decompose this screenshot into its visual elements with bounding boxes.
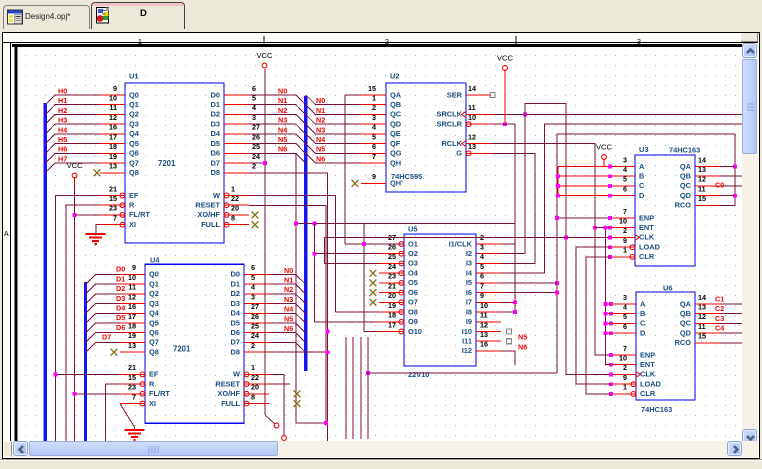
svg-text:16: 16: [128, 302, 136, 311]
svg-text:N4: N4: [284, 305, 293, 314]
svg-text:7: 7: [480, 281, 484, 290]
svg-text:QC: QC: [680, 181, 692, 190]
svg-text:7: 7: [623, 344, 627, 353]
svg-text:D1: D1: [116, 274, 125, 283]
svg-text:D7: D7: [211, 158, 220, 167]
svg-text:N5: N5: [284, 314, 293, 323]
svg-text:N4: N4: [316, 135, 325, 144]
svg-text:7: 7: [132, 392, 136, 401]
svg-text:ENT: ENT: [640, 360, 655, 369]
svg-text:1: 1: [623, 246, 627, 255]
svg-text:13: 13: [468, 142, 476, 151]
svg-text:15: 15: [698, 194, 706, 203]
svg-text:21: 21: [388, 281, 396, 290]
svg-text:15: 15: [698, 332, 706, 341]
svg-text:11: 11: [109, 103, 117, 112]
svg-text:D7: D7: [231, 338, 240, 347]
svg-text:D2: D2: [231, 289, 240, 298]
svg-text:15: 15: [128, 373, 136, 382]
svg-text:H5: H5: [58, 135, 67, 144]
svg-text:U3: U3: [639, 145, 648, 154]
svg-text:D0: D0: [116, 265, 125, 274]
svg-text:O7: O7: [408, 298, 418, 307]
svg-text:RESET: RESET: [215, 379, 240, 388]
svg-text:H3: H3: [58, 116, 67, 125]
svg-text:10: 10: [468, 113, 476, 122]
svg-text:D6: D6: [211, 149, 220, 158]
svg-text:N1: N1: [278, 96, 287, 105]
svg-text:Q8: Q8: [129, 168, 139, 177]
svg-text:QC: QC: [390, 110, 402, 119]
svg-text:Q2: Q2: [149, 289, 159, 298]
svg-text:SRCLK: SRCLK: [437, 110, 463, 119]
svg-text:D7: D7: [102, 333, 111, 342]
svg-text:6: 6: [623, 185, 627, 194]
svg-text:22: 22: [251, 373, 259, 382]
svg-text:ENP: ENP: [639, 213, 654, 222]
svg-text:QD: QD: [390, 120, 402, 129]
svg-text:6: 6: [252, 84, 256, 93]
svg-text:1: 1: [372, 94, 376, 103]
svg-text:N5: N5: [278, 135, 287, 144]
svg-text:5: 5: [251, 273, 255, 282]
svg-text:3: 3: [623, 293, 627, 302]
svg-text:17: 17: [128, 312, 136, 321]
svg-text:Q0: Q0: [129, 90, 139, 99]
svg-text:Q5: Q5: [149, 318, 159, 327]
svg-text:A: A: [639, 162, 645, 171]
svg-text:QH': QH': [390, 179, 403, 188]
svg-text:Q5: Q5: [129, 139, 139, 148]
svg-text:19: 19: [388, 301, 396, 310]
svg-text:QA: QA: [390, 90, 402, 99]
svg-text:D1: D1: [231, 279, 240, 288]
svg-text:W: W: [233, 370, 240, 379]
svg-text:N4: N4: [278, 125, 287, 134]
svg-text:25: 25: [388, 252, 396, 261]
svg-text:16: 16: [109, 123, 117, 132]
svg-text:D3: D3: [116, 294, 125, 303]
svg-text:CLR: CLR: [639, 252, 655, 261]
svg-text:10: 10: [109, 94, 117, 103]
svg-text:C0: C0: [715, 181, 724, 190]
svg-text:6: 6: [372, 142, 376, 151]
svg-text:6: 6: [623, 322, 627, 331]
svg-text:18: 18: [128, 322, 136, 331]
svg-text:H4: H4: [58, 125, 67, 134]
svg-text:I10: I10: [462, 327, 472, 336]
svg-text:C2: C2: [715, 304, 724, 313]
svg-text:D8: D8: [231, 348, 240, 357]
svg-text:12: 12: [109, 113, 117, 122]
svg-text:I2: I2: [466, 249, 472, 258]
svg-text:13: 13: [109, 162, 117, 171]
svg-text:RESET: RESET: [195, 201, 220, 210]
svg-text:QA: QA: [680, 299, 692, 308]
svg-text:9: 9: [372, 172, 376, 181]
svg-text:R: R: [129, 201, 135, 210]
svg-text:U2: U2: [390, 72, 399, 81]
svg-text:19: 19: [109, 152, 117, 161]
svg-text:D4: D4: [211, 129, 221, 138]
svg-text:Q7: Q7: [129, 158, 139, 167]
svg-text:Q2: Q2: [129, 110, 139, 119]
svg-text:FULL: FULL: [201, 220, 220, 229]
svg-text:23: 23: [128, 383, 136, 392]
svg-text:17: 17: [109, 132, 117, 141]
svg-text:10: 10: [619, 354, 627, 363]
svg-text:11: 11: [468, 103, 476, 112]
svg-text:CLK: CLK: [640, 370, 656, 379]
svg-text:N1: N1: [316, 106, 325, 115]
svg-text:Q6: Q6: [129, 149, 139, 158]
svg-text:C: C: [640, 319, 646, 328]
svg-text:12: 12: [698, 312, 706, 321]
svg-text:11: 11: [698, 185, 706, 194]
svg-text:R: R: [149, 379, 155, 388]
svg-text:24: 24: [251, 331, 259, 340]
svg-text:I6: I6: [466, 288, 472, 297]
svg-text:D5: D5: [116, 313, 125, 322]
svg-text:B: B: [640, 309, 645, 318]
svg-text:C1: C1: [715, 294, 724, 303]
svg-text:QE: QE: [390, 129, 401, 138]
svg-text:8: 8: [231, 214, 235, 223]
svg-text:U4: U4: [150, 256, 160, 265]
svg-text:8: 8: [251, 392, 255, 401]
svg-text:U1: U1: [129, 72, 138, 81]
svg-text:13: 13: [698, 303, 706, 312]
svg-text:7201: 7201: [158, 159, 176, 168]
svg-text:18: 18: [388, 311, 396, 320]
svg-text:20: 20: [388, 291, 396, 300]
svg-text:5: 5: [480, 262, 484, 271]
svg-text:6: 6: [251, 263, 255, 272]
svg-text:W: W: [213, 191, 220, 200]
svg-text:14: 14: [468, 84, 476, 93]
svg-text:O4: O4: [408, 269, 419, 278]
svg-text:10: 10: [128, 273, 136, 282]
svg-text:22V10: 22V10: [408, 370, 429, 379]
svg-text:21: 21: [109, 184, 117, 193]
svg-text:Q3: Q3: [129, 120, 139, 129]
svg-text:11: 11: [698, 322, 706, 331]
svg-text:3: 3: [251, 292, 255, 301]
svg-text:RCO: RCO: [675, 201, 692, 210]
svg-text:N0: N0: [278, 86, 287, 95]
svg-text:4: 4: [480, 252, 484, 261]
svg-text:74HC163: 74HC163: [669, 146, 700, 155]
svg-text:O3: O3: [408, 259, 418, 268]
svg-text:11: 11: [480, 311, 488, 320]
svg-text:I8: I8: [466, 307, 472, 316]
svg-text:22: 22: [231, 194, 239, 203]
svg-text:QH: QH: [390, 158, 401, 167]
svg-text:Q4: Q4: [129, 129, 140, 138]
svg-text:D6: D6: [116, 323, 125, 332]
svg-text:24: 24: [388, 262, 396, 271]
svg-text:Q7: Q7: [149, 338, 159, 347]
svg-text:N2: N2: [316, 116, 325, 125]
svg-text:9: 9: [623, 236, 627, 245]
svg-text:27: 27: [251, 302, 259, 311]
svg-text:O9: O9: [408, 317, 418, 326]
svg-text:EF: EF: [129, 191, 139, 200]
svg-text:7201: 7201: [173, 345, 191, 354]
svg-text:Q6: Q6: [149, 328, 159, 337]
svg-text:N3: N3: [278, 116, 287, 125]
svg-text:N2: N2: [278, 106, 287, 115]
svg-text:QB: QB: [680, 309, 691, 318]
svg-text:A: A: [4, 231, 9, 238]
svg-text:C4: C4: [715, 324, 724, 333]
svg-text:10: 10: [480, 301, 488, 310]
svg-text:7: 7: [113, 214, 117, 223]
svg-text:12: 12: [698, 175, 706, 184]
svg-text:N3: N3: [284, 295, 293, 304]
svg-text:4: 4: [623, 165, 627, 174]
svg-text:N1: N1: [284, 276, 293, 285]
svg-text:H2: H2: [58, 106, 67, 115]
svg-text:H0: H0: [58, 86, 67, 95]
svg-text:D: D: [639, 191, 645, 200]
svg-text:3: 3: [372, 113, 376, 122]
svg-text:H6: H6: [58, 145, 67, 154]
svg-text:N5: N5: [316, 145, 325, 154]
svg-text:D4: D4: [116, 304, 125, 313]
svg-text:FL/RT: FL/RT: [129, 210, 150, 219]
svg-text:3: 3: [623, 155, 627, 164]
svg-text:B: B: [639, 172, 644, 181]
svg-text:QA: QA: [680, 162, 692, 171]
svg-text:20: 20: [251, 383, 259, 392]
svg-text:21: 21: [128, 363, 136, 372]
svg-text:QD: QD: [680, 191, 692, 200]
svg-text:D1: D1: [211, 100, 220, 109]
svg-text:5: 5: [623, 312, 627, 321]
svg-text:7: 7: [623, 207, 627, 216]
svg-text:I7: I7: [466, 298, 472, 307]
svg-text:U5: U5: [408, 225, 417, 234]
svg-text:5: 5: [372, 132, 376, 141]
svg-text:FL/RT: FL/RT: [149, 389, 170, 398]
svg-text:O10: O10: [408, 327, 422, 336]
svg-text:I11: I11: [462, 337, 472, 346]
svg-text:C3: C3: [715, 314, 724, 323]
svg-text:QC: QC: [680, 319, 692, 328]
svg-text:1: 1: [251, 363, 255, 372]
svg-text:D6: D6: [231, 328, 240, 337]
svg-text:12: 12: [468, 132, 476, 141]
svg-text:10: 10: [619, 217, 627, 226]
svg-text:O5: O5: [408, 278, 418, 287]
svg-text:Q3: Q3: [149, 299, 159, 308]
svg-text:ENT: ENT: [639, 223, 654, 232]
svg-text:15: 15: [109, 194, 117, 203]
svg-text:12: 12: [480, 320, 488, 329]
svg-text:1: 1: [623, 383, 627, 392]
svg-text:G: G: [456, 149, 462, 158]
svg-text:VCC: VCC: [497, 54, 514, 63]
svg-text:D5: D5: [211, 139, 220, 148]
svg-text:26: 26: [251, 312, 259, 321]
svg-text:19: 19: [128, 331, 136, 340]
svg-text:2: 2: [623, 226, 627, 235]
svg-text:N5: N5: [518, 333, 527, 342]
svg-text:U6: U6: [663, 284, 672, 293]
svg-text:I5: I5: [466, 278, 472, 287]
svg-text:C: C: [639, 181, 645, 190]
svg-text:RCLK: RCLK: [441, 139, 462, 148]
svg-text:9: 9: [480, 291, 484, 300]
svg-text:14: 14: [698, 155, 706, 164]
svg-text:Q1: Q1: [129, 100, 139, 109]
svg-text:CLR: CLR: [640, 389, 656, 398]
svg-text:4: 4: [623, 303, 627, 312]
svg-text:I9: I9: [466, 317, 472, 326]
svg-text:LOAD: LOAD: [640, 380, 662, 389]
svg-text:QB: QB: [680, 172, 691, 181]
svg-text:D5: D5: [231, 318, 240, 327]
svg-text:N6: N6: [284, 324, 293, 333]
svg-text:VCC: VCC: [256, 51, 273, 60]
svg-text:D0: D0: [211, 90, 220, 99]
svg-text:SER: SER: [447, 90, 463, 99]
svg-text:23: 23: [109, 204, 117, 213]
svg-text:XO/HF: XO/HF: [217, 389, 240, 398]
svg-text:25: 25: [251, 322, 259, 331]
svg-text:D3: D3: [211, 120, 220, 129]
svg-text:2: 2: [372, 103, 376, 112]
svg-text:74HC163: 74HC163: [641, 405, 672, 414]
svg-text:I12: I12: [462, 346, 472, 355]
svg-text:2: 2: [251, 341, 255, 350]
svg-text:CLK: CLK: [639, 233, 655, 242]
svg-text:4: 4: [251, 283, 255, 292]
svg-text:SRCLR: SRCLR: [437, 120, 463, 129]
svg-text:FULL: FULL: [221, 399, 240, 408]
svg-text:N0: N0: [284, 266, 293, 275]
svg-text:D8: D8: [211, 168, 220, 177]
svg-text:N6: N6: [316, 154, 325, 163]
svg-text:6: 6: [480, 272, 484, 281]
svg-text:QF: QF: [390, 139, 401, 148]
svg-text:N6: N6: [278, 145, 287, 154]
svg-text:ENP: ENP: [640, 350, 655, 359]
svg-text:H1: H1: [58, 96, 67, 105]
svg-text:N0: N0: [316, 96, 325, 105]
svg-text:XI: XI: [129, 220, 136, 229]
svg-text:D: D: [640, 329, 646, 338]
svg-text:9: 9: [132, 263, 136, 272]
svg-text:20: 20: [231, 204, 239, 213]
svg-text:N2: N2: [284, 285, 293, 294]
svg-text:N6: N6: [518, 342, 527, 351]
svg-text:I3: I3: [466, 259, 472, 268]
svg-text:QG: QG: [390, 149, 402, 158]
svg-text:QB: QB: [390, 100, 401, 109]
svg-text:VCC: VCC: [67, 161, 84, 170]
svg-text:EF: EF: [149, 370, 159, 379]
svg-text:RCO: RCO: [675, 338, 692, 347]
svg-text:D2: D2: [211, 110, 220, 119]
svg-text:Q1: Q1: [149, 279, 159, 288]
svg-text:D4: D4: [231, 309, 241, 318]
svg-text:N3: N3: [316, 125, 325, 134]
svg-text:9: 9: [623, 373, 627, 382]
svg-text:QD: QD: [680, 329, 692, 338]
svg-text:I1/CLK: I1/CLK: [449, 239, 473, 248]
svg-text:XO/HF: XO/HF: [197, 210, 220, 219]
svg-text:4: 4: [372, 123, 376, 132]
svg-text:Q8: Q8: [149, 348, 159, 357]
svg-text:5: 5: [623, 175, 627, 184]
svg-text:13: 13: [480, 330, 488, 339]
svg-text:O1: O1: [408, 239, 418, 248]
svg-text:13: 13: [698, 165, 706, 174]
svg-text:15: 15: [368, 84, 376, 93]
svg-text:Q4: Q4: [149, 309, 160, 318]
svg-text:17: 17: [388, 320, 396, 329]
svg-text:3: 3: [480, 243, 484, 252]
svg-text:VCC: VCC: [596, 143, 613, 152]
svg-text:Q0: Q0: [149, 270, 159, 279]
svg-text:7: 7: [372, 152, 376, 161]
svg-text:O2: O2: [408, 249, 418, 258]
svg-text:14: 14: [698, 293, 706, 302]
svg-text:9: 9: [113, 84, 117, 93]
svg-text:O6: O6: [408, 288, 418, 297]
svg-text:LOAD: LOAD: [639, 243, 661, 252]
svg-text:O8: O8: [408, 307, 418, 316]
svg-text:13: 13: [128, 341, 136, 350]
svg-text:11: 11: [128, 283, 136, 292]
svg-text:A: A: [640, 299, 646, 308]
svg-text:2: 2: [623, 363, 627, 372]
svg-text:D3: D3: [231, 299, 240, 308]
svg-text:D2: D2: [116, 284, 125, 293]
svg-text:1: 1: [231, 184, 235, 193]
svg-text:16: 16: [480, 340, 488, 349]
svg-text:XI: XI: [149, 399, 156, 408]
svg-text:23: 23: [388, 272, 396, 281]
svg-text:12: 12: [128, 292, 136, 301]
svg-text:I4: I4: [466, 269, 473, 278]
svg-text:D0: D0: [231, 270, 240, 279]
svg-text:18: 18: [109, 142, 117, 151]
